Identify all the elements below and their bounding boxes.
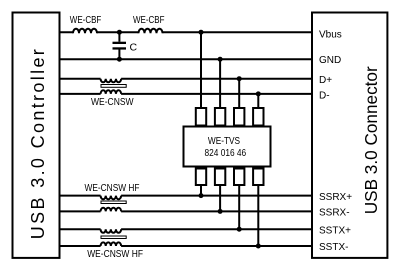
svg-text:WE-TVS: WE-TVS: [208, 136, 241, 147]
svg-text:WE-CBF: WE-CBF: [70, 15, 102, 26]
svg-text:GND: GND: [319, 55, 341, 66]
svg-text:D+: D+: [319, 75, 332, 86]
svg-text:SSTX-: SSTX-: [319, 242, 348, 253]
svg-text:SSRX+: SSRX+: [319, 192, 352, 203]
svg-text:SSTX+: SSTX+: [319, 226, 351, 237]
svg-text:WE-CNSW HF: WE-CNSW HF: [87, 249, 143, 260]
svg-text:C: C: [130, 42, 138, 54]
svg-text:D-: D-: [319, 91, 330, 102]
svg-text:Vbus: Vbus: [319, 29, 342, 40]
svg-text:824 016 46: 824 016 46: [205, 148, 247, 159]
svg-text:USB 3.0 Connector: USB 3.0 Connector: [361, 66, 381, 214]
svg-text:WE-CNSW: WE-CNSW: [91, 97, 134, 108]
svg-text:SSRX-: SSRX-: [319, 208, 350, 219]
svg-text:WE-CBF: WE-CBF: [133, 15, 165, 26]
svg-text:WE-CNSW HF: WE-CNSW HF: [85, 183, 140, 194]
